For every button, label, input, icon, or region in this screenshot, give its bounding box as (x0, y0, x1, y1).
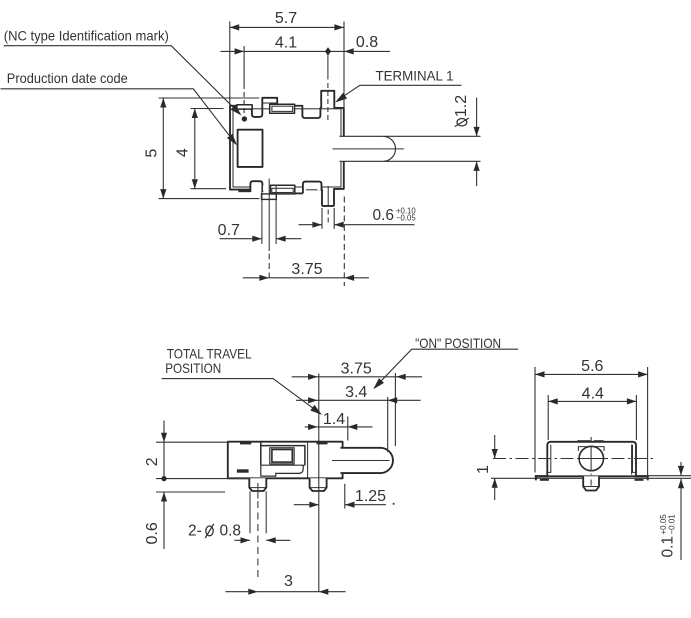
svg-text:(NC type Identification mark): (NC type Identification mark) (4, 28, 169, 44)
terminal2 bottom center line (327, 186, 329, 207)
dimension 1.4 (side) (305, 426, 373, 428)
TERMINAL 1 leader (338, 85, 462, 100)
bottom notch right (white U) (303, 182, 322, 194)
svg-text:0.8: 0.8 (356, 34, 378, 51)
end body outline (547, 442, 636, 477)
dimension 1.25 (294, 504, 319, 506)
dimension 3.75 (side) (292, 376, 422, 378)
svg-text:0.6: 0.6 (144, 522, 161, 544)
bottom tray tab (271, 185, 295, 194)
svg-text:0.8: 0.8 (220, 523, 242, 540)
0.1 tolerance text (rotated) (659, 514, 677, 558)
svg-text:4: 4 (175, 148, 192, 157)
svg-text:5: 5 (144, 149, 161, 158)
end body inner line right (631, 445, 633, 475)
side right terminal (310, 478, 327, 491)
dimension 2 (side) (156, 441, 229, 443)
1.4 right extension (347, 416, 349, 440)
dimension 2-phi0.8 (234, 539, 250, 541)
flange bottom reference line (649, 475, 691, 477)
svg-text:1.2: 1.2 (453, 95, 470, 117)
dimension 0.7 (220, 238, 262, 240)
end plunger boss chord (578, 446, 605, 448)
seating plane line (491, 477, 691, 479)
side dark bar (237, 469, 249, 472)
dimension 5.7 (230, 26, 344, 28)
side plunger center line (332, 460, 390, 462)
top tray tab inner (272, 106, 293, 111)
phi symbol (rotated) (457, 119, 467, 126)
bottom notch left (white U) (250, 181, 262, 192)
side top mark right (317, 441, 328, 444)
svg-text:1.4: 1.4 (323, 411, 345, 428)
4.4 extension lines (547, 395, 549, 440)
svg-text:−0.01: −0.01 (668, 514, 677, 535)
side mechanism inner box (272, 450, 292, 463)
bottom edge pin-gap erase (263, 186, 270, 191)
end top tick marks (577, 440, 591, 442)
TOTAL TRAVEL leader (162, 379, 320, 414)
Production leader (1, 89, 236, 143)
svg-text:0.1: 0.1 (660, 536, 677, 558)
plunger center line (333, 148, 404, 150)
left pin center line (257, 483, 259, 499)
0.6 extension lines (321, 208, 323, 229)
ON POSITION leader (375, 349, 518, 387)
bottom edge step segment (295, 192, 303, 194)
svg-text:5.6: 5.6 (581, 358, 603, 375)
side mechanism outer box (261, 443, 305, 466)
svg-text:2-: 2- (188, 523, 202, 540)
phi1.2 extension lines (384, 135, 481, 137)
svg-text:1.25: 1.25 (355, 488, 386, 505)
side plunger (341, 448, 393, 473)
bottom tray tab inner (272, 188, 293, 192)
long extension line (right terminal center) (318, 374, 320, 592)
dimension 4 (191, 108, 224, 110)
end circle (579, 446, 603, 470)
svg-text:TERMINAL 1: TERMINAL 1 (376, 67, 454, 83)
NC leader (4, 46, 240, 114)
svg-text:5.7: 5.7 (275, 10, 297, 27)
tall tab inner line (262, 102, 277, 104)
svg-text:Production date code: Production date code (7, 70, 128, 86)
svg-text:0.6: 0.6 (373, 207, 395, 224)
dimension 0.1 (end) (680, 462, 682, 476)
dimension 3 (side) (225, 591, 345, 593)
bottom tall tab (262, 194, 277, 200)
3.75 right extension (dashed, body corner) (343, 197, 345, 287)
3.75 right extension (394, 373, 396, 446)
bottom-left pin center line (268, 179, 270, 252)
dimension 5.6 (535, 373, 648, 375)
end vertical center line (590, 437, 592, 444)
phi1.2 dimension (476, 98, 478, 137)
svg-text:3: 3 (284, 573, 293, 590)
extension line left (5.7) (229, 22, 231, 107)
1.25 right extension (344, 484, 346, 509)
svg-text:3.75: 3.75 (341, 360, 372, 377)
dimension 3.4 (side) (296, 399, 421, 401)
top tray tab (270, 104, 295, 113)
side left terminal (249, 478, 266, 491)
left pin lines (249, 491, 251, 533)
dimension 0.6 (terminal width) (299, 224, 322, 226)
extension line right (5.7/0.8) (343, 22, 345, 108)
end left flange foot (535, 475, 548, 477)
shared point diamond (325, 47, 331, 55)
NC identification mark dot (242, 116, 247, 121)
svg-text:4.1: 4.1 (275, 35, 297, 52)
side body outline (228, 442, 343, 479)
bottom-left pin lines (261, 190, 263, 244)
svg-text:0.7: 0.7 (218, 222, 240, 239)
terminal1 center line (top) (327, 51, 329, 79)
side mechanism middle box (270, 448, 294, 464)
dimension 4.1 / 0.8 line (221, 50, 391, 52)
svg-text:3.75: 3.75 (291, 261, 322, 278)
dimension 1 (end) (494, 435, 496, 459)
svg-text:2: 2 (144, 457, 161, 466)
body outer outline with notches, tabs, terminals (230, 91, 344, 206)
side inner divider right (307, 442, 309, 478)
svg-text:4.4: 4.4 (582, 385, 604, 402)
stray speck right of 1.25 (393, 503, 395, 505)
svg-text:3.4: 3.4 (345, 384, 367, 401)
end pin (583, 476, 599, 490)
body inner outline (233, 109, 341, 187)
svg-text:1: 1 (475, 465, 492, 474)
end pin chamfer line (584, 486, 599, 488)
bottom edge right-step erase (295, 188, 304, 191)
end horizontal center line (493, 458, 577, 460)
3.4 right extension (387, 397, 389, 452)
svg-text:"ON" POSITION: "ON" POSITION (415, 335, 501, 351)
end body inner side lines (550, 445, 552, 473)
svg-text:−0.05: −0.05 (396, 214, 416, 223)
plunger top view (340, 136, 396, 161)
dimension 5 (159, 97, 260, 99)
top-left plate (237, 105, 252, 109)
5.6 extension lines (534, 367, 536, 473)
date code rectangle (238, 130, 263, 167)
dimension 0.6 (side) (156, 491, 225, 493)
phi symbol (2-phi0.8) (206, 526, 213, 536)
dimension 4.4 (548, 400, 636, 402)
end right flange foot (635, 475, 648, 477)
bottom-left dark bar (238, 189, 250, 192)
bottom notch right inner line (306, 189, 318, 191)
end pin center tick (590, 480, 592, 486)
dimension 3.75 (top view) (243, 277, 369, 279)
extension line NC mark (4.1) (243, 46, 245, 89)
svg-text:POSITION: POSITION (165, 360, 221, 376)
side top mark left (240, 441, 251, 444)
side step detail (261, 465, 305, 476)
